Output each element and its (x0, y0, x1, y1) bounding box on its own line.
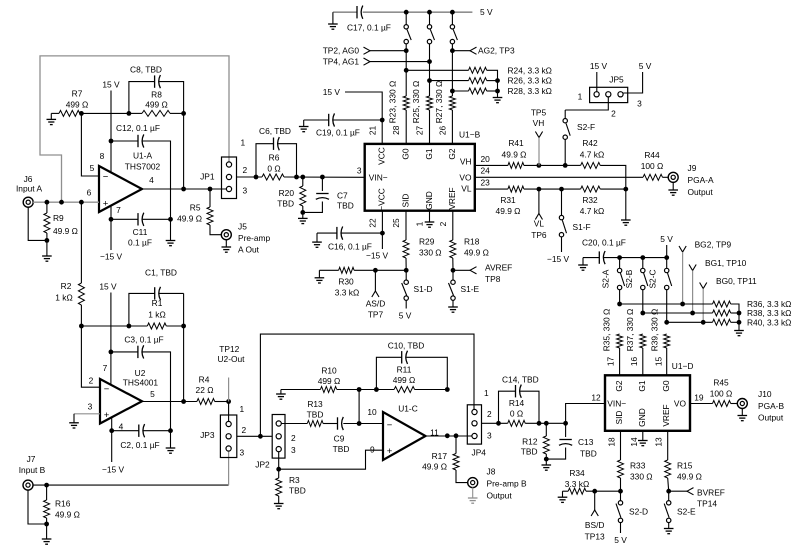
wire J7 sleeve loop (28, 490, 47, 524)
svg-text:22 Ω: 22 Ω (196, 385, 214, 395)
label R38 (747, 308, 791, 318)
svg-text:3: 3 (240, 448, 245, 458)
ground at R9 (42, 240, 52, 261)
wire VH pin 20 (475, 164, 508, 166)
svg-text:4.7 kΩ: 4.7 kΩ (580, 150, 604, 160)
svg-text:2: 2 (243, 165, 248, 175)
svg-text:C1, TBD: C1, TBD (145, 268, 177, 278)
connector J9 (668, 172, 678, 182)
node R12 bottom (544, 457, 549, 462)
label R27 (434, 81, 444, 124)
node C2 left (109, 428, 114, 433)
svg-text:2: 2 (438, 221, 448, 226)
pin 27 label (415, 126, 425, 136)
pin 22 label (367, 218, 377, 228)
svg-text:5 V: 5 V (639, 61, 652, 71)
ground at S1-E (448, 300, 458, 312)
svg-text:TP2, AG0: TP2, AG0 (323, 46, 360, 56)
node TP2 arrow (364, 47, 407, 54)
op-amp U1-A (99, 166, 142, 212)
svg-text:14: 14 (629, 437, 639, 447)
svg-text:499 Ω: 499 Ω (393, 375, 416, 385)
label JP4 (472, 447, 487, 457)
connector J7 (23, 480, 33, 490)
wire JP4 pin2 to R14 (482, 422, 508, 424)
svg-text:2: 2 (89, 376, 94, 386)
resistor R18 (450, 211, 456, 271)
wire G1 column upper (429, 62, 431, 96)
pin VREF label U1-D (661, 404, 671, 426)
label C3 (124, 335, 163, 345)
node J7-R16 (44, 483, 49, 488)
node AG2 arrow (452, 47, 476, 54)
resistor R17 (453, 436, 468, 483)
switch S2-D (616, 491, 623, 533)
label JP5 pin1 (578, 91, 583, 101)
capacitor C9 (338, 417, 384, 430)
pin VH label (460, 157, 472, 167)
pin VIN- label U1-D (607, 399, 626, 409)
svg-text:S1-D: S1-D (414, 284, 433, 294)
label R6 (267, 153, 280, 174)
svg-text:R31: R31 (500, 195, 516, 205)
svg-text:THS7002: THS7002 (125, 162, 161, 172)
svg-text:12: 12 (591, 393, 601, 403)
svg-text:VH: VH (533, 118, 545, 128)
label AVREF TP8 (485, 263, 512, 284)
svg-text:R23, 330 Ω: R23, 330 Ω (388, 81, 398, 124)
svg-text:49.9 Ω: 49.9 Ω (464, 247, 489, 257)
supply -15V U1-B (366, 211, 389, 261)
node BG1 tap (690, 311, 695, 316)
op-amp U1-C (383, 412, 426, 460)
ground at J5 (222, 240, 232, 253)
svg-text:49.9 Ω: 49.9 Ω (55, 509, 80, 519)
svg-text:G2: G2 (447, 148, 457, 160)
svg-text:21: 21 (367, 126, 377, 136)
resistor R41 (508, 162, 565, 168)
ground at R20/C7 (298, 212, 308, 223)
node R17 top (454, 433, 459, 438)
node S2-B top (640, 255, 645, 260)
pin 28 label (391, 125, 401, 135)
label R10 (318, 365, 341, 386)
svg-text:R42: R42 (582, 138, 598, 148)
testpoint TP12 U2-Out (218, 344, 246, 401)
node C19 (380, 118, 385, 123)
svg-text:J7: J7 (27, 454, 36, 464)
ground at R16 (42, 524, 52, 544)
pin GND label U1-D (637, 408, 647, 427)
label R25 (411, 81, 421, 124)
svg-text:18: 18 (607, 437, 617, 447)
switch S1-D (402, 270, 409, 308)
label S2-B (624, 269, 634, 288)
connector J10 (737, 399, 747, 409)
svg-text:49.9 Ω: 49.9 Ω (502, 150, 527, 160)
svg-text:1: 1 (415, 221, 425, 226)
resistor R20 (300, 177, 306, 212)
ground at R10 (276, 390, 286, 400)
connector J6 (23, 197, 33, 207)
pin 3 label (357, 165, 362, 175)
svg-text:26: 26 (437, 126, 447, 136)
svg-text:J5: J5 (238, 222, 247, 232)
ground at R24/R26/R28 (493, 91, 503, 103)
pin -VCC label (377, 188, 387, 211)
ground at J10 (738, 408, 748, 421)
label JP4 pin3 (487, 430, 492, 440)
svg-text:28: 28 (391, 125, 401, 135)
svg-text:S1-E: S1-E (461, 284, 480, 294)
wire JP3 to JP2 (237, 435, 272, 437)
pin 17 label (606, 357, 616, 367)
svg-text:5 V: 5 V (614, 535, 627, 545)
label JP4 pin1 (484, 388, 489, 398)
pin SID label U1-D (614, 411, 624, 425)
svg-text:C8, TBD: C8, TBD (130, 65, 162, 75)
label C8 (130, 65, 162, 75)
ground at R30 (315, 270, 325, 283)
label R18 (464, 237, 489, 258)
label R11 (393, 365, 416, 386)
header JP5 (590, 87, 628, 102)
svg-text:C13: C13 (578, 437, 594, 447)
label R41 (502, 138, 527, 160)
label R40 (747, 317, 791, 327)
capacitor C13 (546, 423, 572, 459)
svg-text:4.7 kΩ: 4.7 kΩ (580, 206, 604, 216)
node R8 right (181, 111, 186, 116)
switch S1-E (449, 270, 456, 300)
svg-text:C16, 0.1 µF: C16, 0.1 µF (328, 242, 372, 252)
label R32 (580, 195, 604, 216)
svg-text:G2: G2 (614, 380, 624, 392)
resistor R16 (44, 485, 50, 524)
node C11 right (168, 217, 173, 222)
svg-text:S2-F: S2-F (577, 122, 595, 132)
svg-text:TBD: TBD (337, 201, 354, 211)
svg-text:6: 6 (87, 188, 92, 198)
label JP5 (609, 74, 624, 84)
capacitor C20 (583, 251, 667, 264)
label C1 (145, 268, 177, 278)
wire R2 to R1 (81, 325, 147, 327)
svg-text:15 V: 15 V (323, 87, 341, 97)
svg-text:Output: Output (758, 412, 784, 422)
node output-C8 junction (181, 187, 186, 192)
node G1 row (640, 311, 645, 316)
svg-text:S2-B: S2-B (624, 269, 634, 288)
svg-text:+: + (103, 198, 109, 209)
svg-text:3.3 kΩ: 3.3 kΩ (565, 479, 589, 489)
svg-text:S2-E: S2-E (677, 506, 696, 516)
svg-text:R6: R6 (269, 153, 280, 163)
pin 13 label (654, 437, 664, 447)
svg-text:1: 1 (578, 91, 583, 101)
svg-text:1: 1 (484, 388, 489, 398)
resistor R11 (394, 387, 447, 393)
label R3 (289, 475, 306, 496)
node S2-F tap (563, 163, 568, 168)
label S1-D (414, 284, 433, 294)
label R42 (580, 138, 604, 160)
svg-text:TP8: TP8 (485, 274, 501, 284)
svg-text:VH: VH (460, 157, 472, 167)
svg-text:2: 2 (487, 409, 492, 419)
label C20 (582, 238, 626, 248)
ground at C2/C3 (166, 431, 176, 454)
pin SID label (401, 194, 411, 208)
supply -15V U1-A (100, 206, 123, 262)
testpoint BG1 TP10 (689, 258, 747, 313)
svg-text:AG2, TP3: AG2, TP3 (478, 46, 515, 56)
node R12 top (544, 421, 549, 426)
resistor R7 (51, 110, 81, 116)
ground at S2-E (664, 523, 674, 534)
header JP2 (272, 415, 285, 459)
pin 26 label (437, 126, 447, 136)
resistor R45 (713, 401, 738, 407)
header JP3 (220, 415, 236, 458)
testpoint BG0 TP11 (700, 276, 757, 322)
pin G2 label U1-D (614, 380, 624, 392)
supply 15V U2 (99, 282, 117, 384)
ground at R7 (47, 113, 57, 124)
svg-text:Input B: Input B (19, 465, 46, 475)
svg-text:2: 2 (291, 433, 296, 443)
pin 21 label (367, 126, 377, 136)
ground at C16 (312, 233, 322, 247)
label R9 (53, 213, 78, 236)
label U1-B (459, 130, 481, 140)
svg-text:3: 3 (88, 402, 93, 412)
svg-text:VL: VL (534, 219, 545, 229)
svg-text:VREF: VREF (447, 187, 457, 209)
svg-text:S2-A: S2-A (601, 269, 611, 288)
svg-text:VIN−: VIN− (369, 172, 388, 182)
resistor R25 (427, 96, 433, 144)
svg-text:J10: J10 (758, 389, 772, 399)
svg-text:R8: R8 (151, 89, 162, 99)
svg-text:19: 19 (694, 393, 704, 403)
wire R7 to R8 (81, 112, 128, 114)
pin VL label (461, 184, 472, 194)
capacitor C10 (376, 351, 447, 390)
svg-text:10: 10 (367, 407, 377, 417)
svg-text:GND: GND (637, 408, 647, 427)
resistor R36 (620, 301, 739, 313)
node C9 right (357, 421, 362, 426)
pin 12 label (591, 393, 601, 403)
testpoint BS/D TP13 (591, 491, 598, 516)
svg-text:R41: R41 (508, 138, 524, 148)
supply 15V U1-B (323, 87, 382, 144)
label C9 (333, 434, 350, 454)
svg-text:17: 17 (606, 357, 616, 367)
node AG0 junction (404, 48, 409, 53)
svg-text:1 kΩ: 1 kΩ (55, 292, 72, 302)
node R1 right (181, 324, 186, 329)
svg-text:BG1, TP10: BG1, TP10 (705, 258, 747, 268)
label R31 (496, 195, 521, 216)
svg-text:R14: R14 (509, 398, 525, 408)
pin G2 label (447, 148, 457, 160)
pin G0 label (401, 148, 411, 160)
svg-text:R5: R5 (190, 203, 201, 213)
switch S2-C (665, 258, 672, 323)
node S2-A top (617, 255, 622, 260)
switch S2-F (563, 110, 570, 165)
connector J8 (468, 478, 478, 488)
pin 5 label U2 (150, 389, 155, 399)
testpoint BG2 TP9 (679, 240, 732, 304)
pin 1 label (415, 221, 425, 226)
resistor R24 (406, 67, 497, 80)
label S2-C (648, 269, 658, 288)
resistor R23 (403, 96, 409, 144)
supply -15V U2 (102, 418, 125, 474)
supply 15V U1-A (102, 80, 120, 173)
capacitor C12 (111, 134, 171, 219)
svg-text:5 V: 5 V (399, 311, 412, 321)
pin 11 label (430, 428, 439, 438)
svg-text:−: − (387, 420, 393, 431)
svg-text:7: 7 (116, 205, 121, 215)
label U1-A (125, 151, 161, 172)
svg-text:330 Ω: 330 Ω (630, 471, 653, 481)
label R7 (66, 88, 89, 109)
svg-text:R12: R12 (522, 436, 538, 446)
node TP4 arrow (364, 58, 430, 65)
wire J7 to JP3 pin3 (33, 452, 229, 485)
svg-text:R26, 3.3 kΩ: R26, 3.3 kΩ (508, 76, 552, 86)
wire JP2 pin3 down (278, 452, 280, 470)
resistor R26 (430, 78, 498, 84)
wire inverting input drop (81, 113, 99, 176)
label R5 (177, 203, 202, 224)
svg-text:−15 V: −15 V (102, 464, 125, 474)
wire VO U1-D (690, 403, 713, 405)
pin 18 label (607, 437, 617, 447)
svg-text:C20, 0.1 µF: C20, 0.1 µF (582, 238, 626, 248)
label 5V S2-D (614, 535, 627, 545)
svg-text:R15: R15 (677, 460, 693, 470)
resistor R9 (44, 202, 50, 240)
svg-text:J8: J8 (487, 466, 496, 476)
svg-text:VO: VO (674, 399, 687, 409)
label R33 (630, 460, 653, 481)
pin 2 label (438, 221, 448, 226)
svg-text:G0: G0 (401, 148, 411, 160)
pin 14 label (629, 437, 639, 447)
label J9 (688, 163, 714, 197)
label AS/D TP7 (366, 299, 386, 320)
svg-text:TBD: TBD (277, 198, 294, 208)
pin 23 label (481, 178, 491, 188)
svg-text:R20: R20 (279, 188, 295, 198)
pin 6 label (87, 188, 92, 198)
supply 15V JP5 (590, 61, 608, 92)
svg-text:15 V: 15 V (590, 61, 608, 71)
node R26 left (427, 78, 432, 83)
capacitor C8 (129, 75, 184, 113)
svg-text:R2: R2 (61, 281, 72, 291)
svg-text:TP7: TP7 (368, 310, 384, 320)
node 5V-AG2 (450, 10, 455, 15)
svg-text:SID: SID (614, 411, 624, 425)
svg-text:5 V: 5 V (480, 7, 493, 17)
node R42/R32 junction (623, 187, 628, 192)
svg-text:13: 13 (654, 437, 664, 447)
label JP2 (255, 459, 270, 469)
node TP12 riser (258, 434, 263, 439)
node G2 row (617, 302, 622, 307)
svg-text:R44: R44 (644, 150, 660, 160)
resistor R37 (640, 334, 646, 375)
resistor R28 (452, 88, 497, 94)
pin 3 label U2 (88, 402, 93, 412)
svg-text:J9: J9 (688, 163, 697, 173)
pin G0 label U1-D (661, 380, 671, 392)
node R18 bottom (451, 268, 456, 273)
svg-text:0 Ω: 0 Ω (267, 164, 280, 174)
svg-text:R45: R45 (713, 378, 729, 388)
wire feedback loop from Input A node to JP1 pin 1 (40, 56, 229, 202)
label C19 (316, 128, 360, 138)
label S1-F (573, 222, 591, 232)
label C7 (337, 191, 354, 211)
label S2-D (629, 506, 648, 516)
svg-text:499 Ω: 499 Ω (318, 376, 341, 386)
svg-text:3: 3 (357, 165, 362, 175)
label R13 (307, 399, 324, 419)
node C16 (380, 231, 385, 236)
label R28 (508, 86, 552, 96)
svg-text:4: 4 (119, 421, 124, 431)
pin 2 label U2 (89, 376, 94, 386)
testpoint VL TP6 (531, 189, 547, 240)
node TP6 tap (537, 187, 542, 192)
svg-text:−: − (103, 171, 109, 182)
pin 4 label U2 (119, 421, 124, 431)
node C6 left (254, 175, 259, 180)
wire bypass to JP4 pin1 (260, 334, 474, 436)
label S2-F (577, 122, 595, 132)
wire VO pin 24 (475, 176, 643, 178)
ground at R12/C13 (542, 459, 552, 470)
wire U2 minus drop (81, 326, 100, 387)
switch S2-E (664, 491, 671, 522)
resistor R4 (197, 399, 229, 405)
capacitor C2 (112, 424, 171, 437)
label JP1 pin1 (241, 138, 246, 148)
switch AG0 (404, 12, 411, 51)
resistor R38 (643, 310, 739, 316)
svg-text:R34: R34 (569, 468, 585, 478)
svg-text:R16: R16 (55, 498, 71, 508)
svg-text:R9: R9 (53, 213, 64, 223)
wire to VIN- U1-D (566, 404, 605, 424)
resistor R15 (665, 431, 671, 491)
svg-text:J6: J6 (24, 174, 33, 184)
node R29 bottom (404, 268, 409, 273)
svg-text:0 Ω: 0 Ω (510, 409, 523, 419)
label R15 (677, 460, 702, 481)
node J6-R9 (45, 200, 50, 205)
pin G1 label U1-D (637, 380, 647, 392)
node R4-JP3 junction (226, 399, 231, 404)
